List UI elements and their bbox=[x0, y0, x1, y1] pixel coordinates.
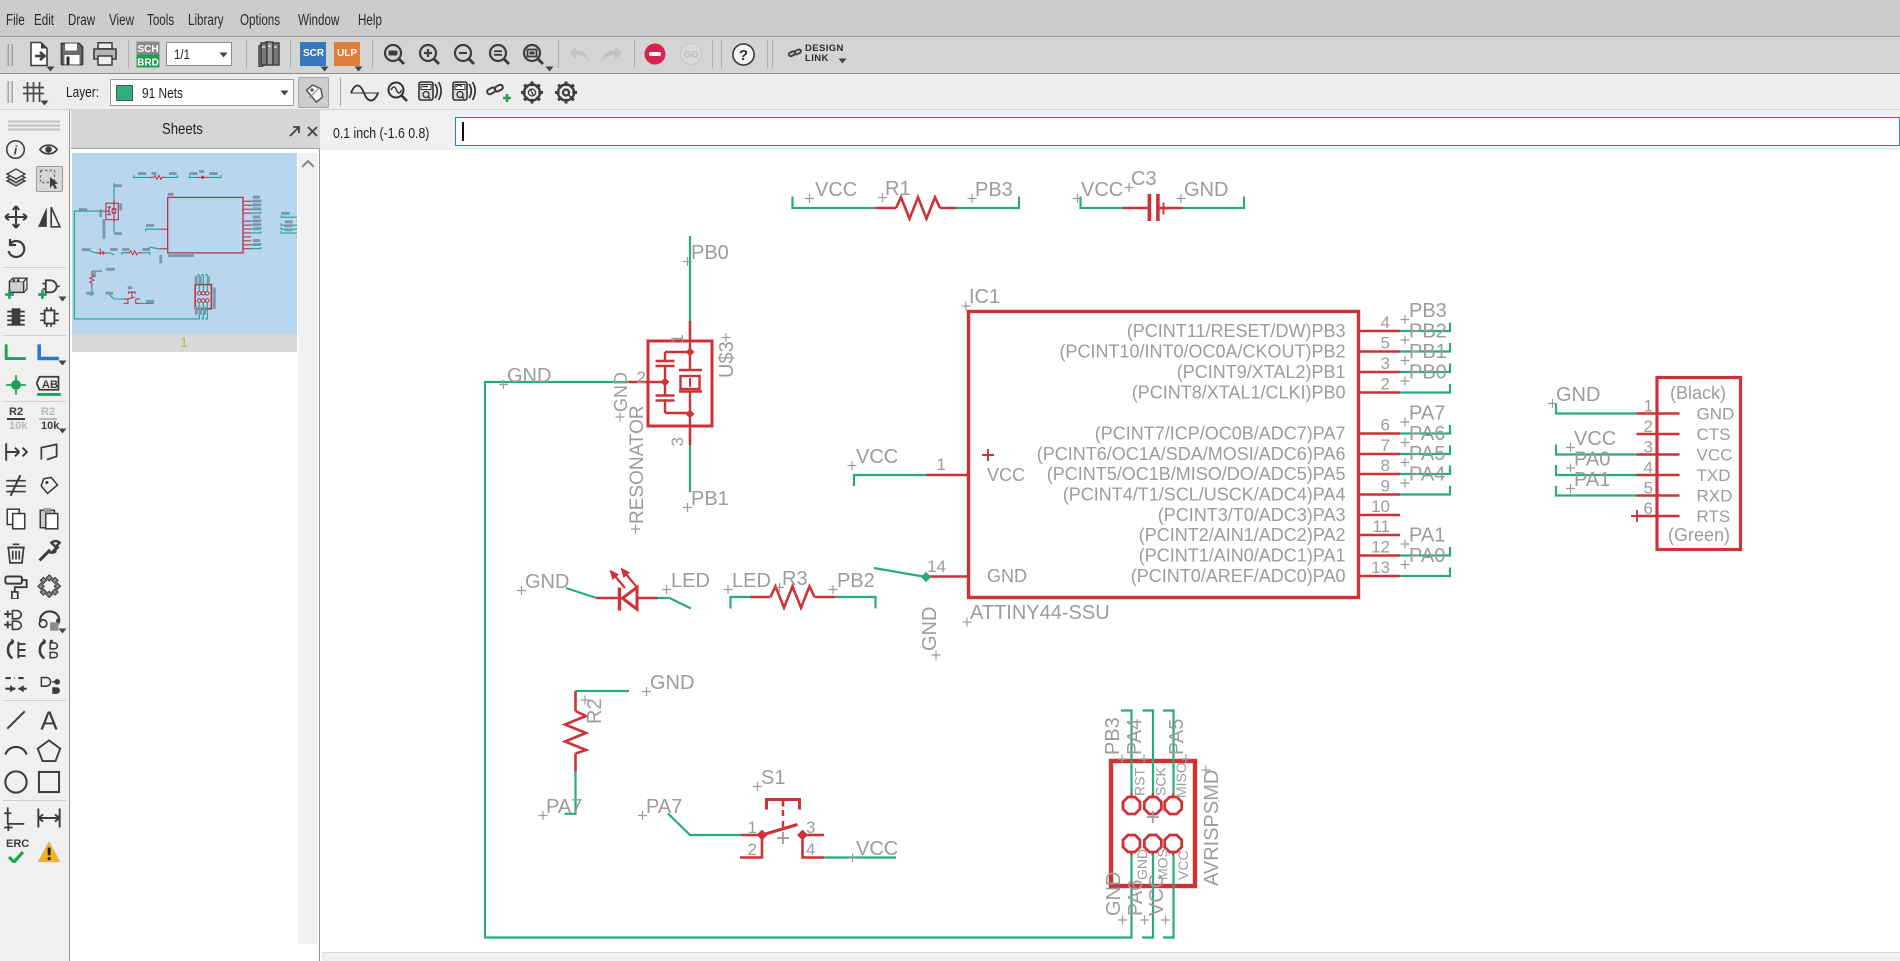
svg-text:PA7: PA7 bbox=[546, 796, 582, 818]
svg-text:i: i bbox=[14, 143, 18, 157]
IC U1 (IC1) body bbox=[969, 312, 1359, 598]
svg-text:VCC: VCC bbox=[1175, 850, 1191, 880]
svg-text:GND: GND bbox=[987, 566, 1027, 586]
svg-text:RXD: RXD bbox=[1697, 487, 1733, 506]
svg-text:(PCINT2/AIN1/ADC2)PA2: (PCINT2/AIN1/ADC2)PA2 bbox=[1139, 525, 1346, 545]
IC1 pin 14 GND bbox=[926, 557, 1027, 586]
svg-text:RESONATOR: RESONATOR bbox=[627, 405, 648, 524]
svg-text:6: 6 bbox=[1381, 416, 1390, 435]
svg-text:A: A bbox=[40, 707, 58, 733]
svg-text:2: 2 bbox=[1381, 375, 1390, 394]
svg-text:6: 6 bbox=[1644, 499, 1653, 518]
svg-text:PA6: PA6 bbox=[1409, 423, 1445, 445]
net GND (to LED) bbox=[517, 571, 597, 598]
IC1 pin 5 (PB2) bbox=[1059, 334, 1400, 362]
svg-text:PA7: PA7 bbox=[1409, 403, 1445, 425]
connector JP1 AVRISPSMD body bbox=[1111, 761, 1195, 886]
svg-text:PB2: PB2 bbox=[1409, 321, 1447, 343]
FTDI pin 2 CTS bbox=[1637, 417, 1731, 444]
net PA4 (IC1 pin 9) bbox=[1400, 464, 1450, 495]
net GND (to FTDI pin 1) bbox=[1548, 384, 1637, 414]
resonator U$3 pin 1 bbox=[668, 321, 690, 343]
net PA6 (IC1 pin 7) bbox=[1400, 423, 1450, 454]
label RESONATOR (vertical) bbox=[627, 405, 648, 533]
net GND (to R2) bbox=[576, 672, 695, 696]
net PA7 (to S1) bbox=[638, 796, 741, 835]
IC1 pin 6 (PA7) bbox=[1095, 416, 1400, 444]
resonator U$3 body bbox=[648, 341, 712, 426]
net PA5 (IC1 pin 8) bbox=[1400, 443, 1450, 474]
svg-text:GND: GND bbox=[525, 571, 569, 593]
svg-text:(PCINT4/T1/SCL/USCK/ADC4)PA4: (PCINT4/T1/SCL/USCK/ADC4)PA4 bbox=[1063, 485, 1346, 505]
svg-text:GND: GND bbox=[1697, 405, 1735, 424]
svg-text:2: 2 bbox=[748, 840, 757, 859]
net PA1 (to FTDI pin 5) bbox=[1556, 469, 1637, 496]
svg-text:PB0: PB0 bbox=[1409, 362, 1447, 384]
net PB3 (to AVRISP RST) bbox=[1102, 711, 1132, 794]
svg-text:(PCINT6/OC1A/SDA/MOSI/ADC6)PA6: (PCINT6/OC1A/SDA/MOSI/ADC6)PA6 bbox=[1037, 444, 1346, 464]
svg-text:ATTINY44-SSU: ATTINY44-SSU bbox=[970, 602, 1110, 624]
capacitor C3 bbox=[1123, 168, 1183, 221]
svg-text:VCC: VCC bbox=[1697, 446, 1733, 465]
svg-text:R1: R1 bbox=[885, 178, 911, 200]
svg-text:AVRISPSMD: AVRISPSMD bbox=[1201, 770, 1223, 886]
net VCC (AVRISP) bbox=[1146, 855, 1174, 938]
FTDI pin 3 VCC bbox=[1637, 438, 1733, 465]
svg-text:14: 14 bbox=[927, 557, 946, 576]
net PB3 (IC1 pin 4) bbox=[1400, 300, 1450, 331]
net PA0 (IC1 pin 13) bbox=[1400, 545, 1450, 576]
svg-text:(PCINT3/T0/ADC3)PA3: (PCINT3/T0/ADC3)PA3 bbox=[1158, 505, 1346, 525]
svg-text:3: 3 bbox=[806, 818, 815, 837]
svg-text:PA0: PA0 bbox=[1574, 449, 1610, 471]
svg-text:PA7: PA7 bbox=[646, 796, 682, 818]
svg-text:(PCINT7/ICP/OC0B/ADC7)PA7: (PCINT7/ICP/OC0B/ADC7)PA7 bbox=[1095, 424, 1346, 444]
svg-text:SCK: SCK bbox=[1153, 767, 1169, 796]
net PB2 (from R3) bbox=[829, 570, 876, 609]
svg-text:(Black): (Black) bbox=[1670, 383, 1726, 403]
svg-text:2: 2 bbox=[1644, 417, 1653, 436]
svg-text:PA5: PA5 bbox=[1166, 719, 1188, 755]
svg-text:S1: S1 bbox=[761, 767, 785, 789]
svg-text:AB: AB bbox=[42, 379, 58, 391]
svg-text:PA1: PA1 bbox=[1409, 525, 1445, 547]
net PB1 bbox=[683, 445, 729, 512]
label GND (vertical, pin 14) bbox=[919, 607, 941, 660]
svg-text:PA4: PA4 bbox=[1124, 719, 1146, 755]
IC1 pin 3 (PB1) bbox=[1177, 354, 1400, 382]
net VCC (to C3) bbox=[1073, 179, 1123, 208]
svg-text:RST: RST bbox=[1132, 768, 1148, 796]
net PB0 (IC1 pin 2) bbox=[1400, 362, 1450, 393]
svg-text:PB1: PB1 bbox=[1409, 341, 1447, 363]
svg-text:(PCINT10/INT0/OC0A/CKOUT)PB2: (PCINT10/INT0/OC0A/CKOUT)PB2 bbox=[1059, 342, 1345, 362]
svg-text:PB3: PB3 bbox=[1409, 300, 1447, 322]
FTDI pin 1 GND bbox=[1637, 397, 1735, 424]
IC1 name label bbox=[962, 286, 1001, 311]
svg-text:4: 4 bbox=[806, 840, 815, 859]
svg-text:3: 3 bbox=[668, 437, 687, 446]
IC1 pin 1 VCC bbox=[926, 449, 1025, 485]
svg-text:2: 2 bbox=[637, 368, 646, 387]
svg-text:GND: GND bbox=[1556, 384, 1600, 406]
svg-text:9: 9 bbox=[1381, 477, 1390, 496]
AVRISPSMD pads bbox=[1123, 794, 1182, 856]
svg-text:RTS: RTS bbox=[1697, 507, 1731, 526]
svg-text:PA6: PA6 bbox=[1125, 880, 1147, 916]
svg-text:TXD: TXD bbox=[1697, 466, 1731, 485]
LED LED1 bbox=[597, 568, 658, 611]
svg-text:GND: GND bbox=[650, 672, 694, 694]
net PA7 (from R2) bbox=[539, 772, 583, 821]
AVRISPSMD name label bbox=[1201, 766, 1223, 887]
net LED (LED right) bbox=[658, 570, 710, 609]
net GND (from C3) bbox=[1177, 179, 1245, 208]
svg-text:8: 8 bbox=[1381, 456, 1390, 475]
FTDI pin 6 RTS bbox=[1631, 499, 1730, 526]
svg-text:(PCINT8/XTAL1/CLKI)PB0: (PCINT8/XTAL1/CLKI)PB0 bbox=[1132, 383, 1346, 403]
FTDI pin 4 TXD bbox=[1637, 458, 1731, 485]
svg-text:1: 1 bbox=[668, 334, 687, 343]
net GND (resonator, long rail) bbox=[485, 365, 1132, 938]
IC1 pin 12 (PA1) bbox=[1139, 538, 1400, 566]
IC1 pin 13 (PA0) bbox=[1131, 558, 1400, 586]
connector J2 FTDI body bbox=[1657, 378, 1741, 550]
svg-text:PB2: PB2 bbox=[837, 570, 875, 592]
switch S1 bbox=[740, 767, 824, 859]
svg-text:(PCINT11/RESET/DW)PB3: (PCINT11/RESET/DW)PB3 bbox=[1127, 321, 1346, 341]
svg-text:GO: GO bbox=[684, 50, 699, 61]
resistor R2 bbox=[565, 691, 606, 772]
svg-text:(PCINT1/AIN0/ADC1)PA1: (PCINT1/AIN0/ADC1)PA1 bbox=[1139, 546, 1346, 566]
svg-text:VCC: VCC bbox=[1574, 428, 1616, 450]
resonator U$3 pin 2 and caps bbox=[629, 352, 690, 413]
svg-text:(PCINT9/XTAL2)PB1: (PCINT9/XTAL2)PB1 bbox=[1177, 362, 1346, 382]
IC1 pin 2 (PB0) bbox=[1132, 375, 1400, 403]
resistor R1 bbox=[876, 178, 957, 219]
sheets panel bbox=[71, 110, 320, 961]
sidebar tools bbox=[0, 110, 70, 961]
net PB3 (from R1) bbox=[957, 179, 1020, 208]
net PA4 (to AVRISP SCK) bbox=[1124, 711, 1153, 794]
svg-text:3: 3 bbox=[1381, 354, 1390, 373]
FTDI label (Green) bbox=[1668, 525, 1730, 545]
svg-text:(PCINT5/OC1B/MISO/DO/ADC5)PA5: (PCINT5/OC1B/MISO/DO/ADC5)PA5 bbox=[1047, 464, 1346, 484]
svg-text:1: 1 bbox=[1644, 397, 1653, 416]
net PB2 (IC1 pin 5) bbox=[1400, 321, 1450, 352]
schematic canvas bbox=[322, 150, 1900, 952]
svg-text:R2: R2 bbox=[584, 698, 606, 724]
net PB0 bbox=[683, 236, 729, 321]
net VCC (to R1) bbox=[793, 179, 876, 208]
svg-text:LED: LED bbox=[732, 570, 771, 592]
svg-text:10: 10 bbox=[1371, 497, 1390, 516]
svg-text:LED: LED bbox=[671, 570, 710, 592]
svg-text:R3: R3 bbox=[782, 568, 808, 590]
svg-text:13: 13 bbox=[1371, 558, 1390, 577]
net PA6 (AVRISP MOSI) bbox=[1125, 855, 1153, 938]
label GND (vertical, resonator) bbox=[611, 372, 631, 422]
IC1 pin 7 (PA6) bbox=[1037, 436, 1400, 464]
resonator U$3 pin 3 bbox=[668, 426, 690, 446]
IC1 value label ATTINY44-SSU bbox=[963, 602, 1110, 627]
svg-text:4: 4 bbox=[1381, 313, 1390, 332]
net PB1 (IC1 pin 3) bbox=[1400, 341, 1450, 372]
net PA7 (IC1 pin 6) bbox=[1400, 403, 1450, 434]
svg-text:PA1: PA1 bbox=[1574, 469, 1610, 491]
svg-text:BRD: BRD bbox=[137, 58, 159, 69]
svg-text:3: 3 bbox=[1644, 438, 1653, 457]
net PA1 (IC1 pin 12) bbox=[1400, 525, 1450, 556]
svg-text:12: 12 bbox=[1371, 538, 1390, 557]
svg-text:PB0: PB0 bbox=[691, 242, 729, 264]
svg-text:VCC: VCC bbox=[1146, 874, 1168, 916]
net PA5 (to AVRISP MISO) bbox=[1163, 711, 1191, 794]
svg-text:SCH: SCH bbox=[137, 44, 158, 55]
net PA0 (to FTDI pin 4) bbox=[1556, 449, 1637, 476]
svg-text:GND: GND bbox=[507, 365, 551, 387]
canvas white bbox=[322, 150, 1900, 952]
svg-text:VCC: VCC bbox=[856, 838, 898, 860]
IC1 pin 10 (PA3) bbox=[1158, 497, 1400, 525]
FTDI label (Black) bbox=[1670, 383, 1726, 403]
svg-text:VCC: VCC bbox=[1081, 179, 1123, 201]
svg-text:VCC: VCC bbox=[815, 179, 857, 201]
svg-text:11: 11 bbox=[1372, 517, 1390, 536]
layer bar bbox=[0, 74, 1900, 111]
IC1 pin 8 (PA5) bbox=[1047, 456, 1400, 484]
resonator U$3 crystal bbox=[679, 341, 702, 426]
resistor R3 bbox=[751, 568, 835, 608]
svg-text:GND: GND bbox=[1184, 179, 1228, 201]
resonator U$3 name bbox=[716, 333, 738, 378]
FTDI pin 5 RXD bbox=[1637, 479, 1733, 506]
svg-text:PB3: PB3 bbox=[1102, 717, 1124, 755]
net VCC (to IC1 pin 1) bbox=[848, 446, 927, 486]
svg-text:MISO: MISO bbox=[1173, 762, 1189, 798]
svg-text:PA5: PA5 bbox=[1409, 443, 1445, 465]
svg-text:GND: GND bbox=[919, 607, 941, 651]
svg-text:4: 4 bbox=[1644, 458, 1653, 477]
svg-text:CTS: CTS bbox=[1697, 425, 1731, 444]
svg-text:PB3: PB3 bbox=[975, 179, 1013, 201]
svg-text:IC1: IC1 bbox=[969, 286, 1000, 308]
svg-text:5: 5 bbox=[1381, 334, 1390, 353]
IC1 pin 9 (PA4) bbox=[1063, 477, 1400, 505]
net VCC (to FTDI pin 3) bbox=[1556, 428, 1637, 455]
menu bar bbox=[0, 0, 1900, 37]
svg-text:U$3: U$3 bbox=[716, 341, 738, 378]
svg-text:?: ? bbox=[739, 47, 748, 64]
svg-text:(Green): (Green) bbox=[1668, 525, 1730, 545]
svg-text:5: 5 bbox=[1644, 479, 1653, 498]
net LED (to R3) bbox=[724, 570, 771, 609]
svg-text:1: 1 bbox=[748, 818, 757, 837]
net VCC (from S1) bbox=[824, 838, 898, 863]
svg-text:GND: GND bbox=[1103, 872, 1125, 916]
IC1 pin 4 (PB3) bbox=[1127, 313, 1400, 341]
svg-text:1: 1 bbox=[937, 455, 946, 474]
svg-text:7: 7 bbox=[1381, 436, 1390, 455]
svg-text:C3: C3 bbox=[1131, 168, 1157, 190]
svg-text:(PCINT0/AREF/ADC0)PA0: (PCINT0/AREF/ADC0)PA0 bbox=[1131, 566, 1346, 586]
net GND (IC1 pin 14 stub) bbox=[874, 568, 931, 582]
AVRISPSMD pin labels bbox=[1132, 762, 1192, 880]
svg-text:VCC: VCC bbox=[856, 446, 898, 468]
svg-text:PB1: PB1 bbox=[691, 488, 729, 510]
svg-text:PA4: PA4 bbox=[1409, 464, 1445, 486]
label GND (vertical, AVRISP) bbox=[1103, 872, 1127, 925]
svg-text:VCC: VCC bbox=[987, 465, 1025, 485]
toolbar bbox=[0, 37, 1900, 74]
IC1 pin 11 (PA2) bbox=[1139, 517, 1400, 545]
bottom scrollbar bbox=[322, 952, 1900, 961]
svg-text:PA0: PA0 bbox=[1409, 545, 1445, 567]
command band bbox=[320, 110, 1900, 150]
